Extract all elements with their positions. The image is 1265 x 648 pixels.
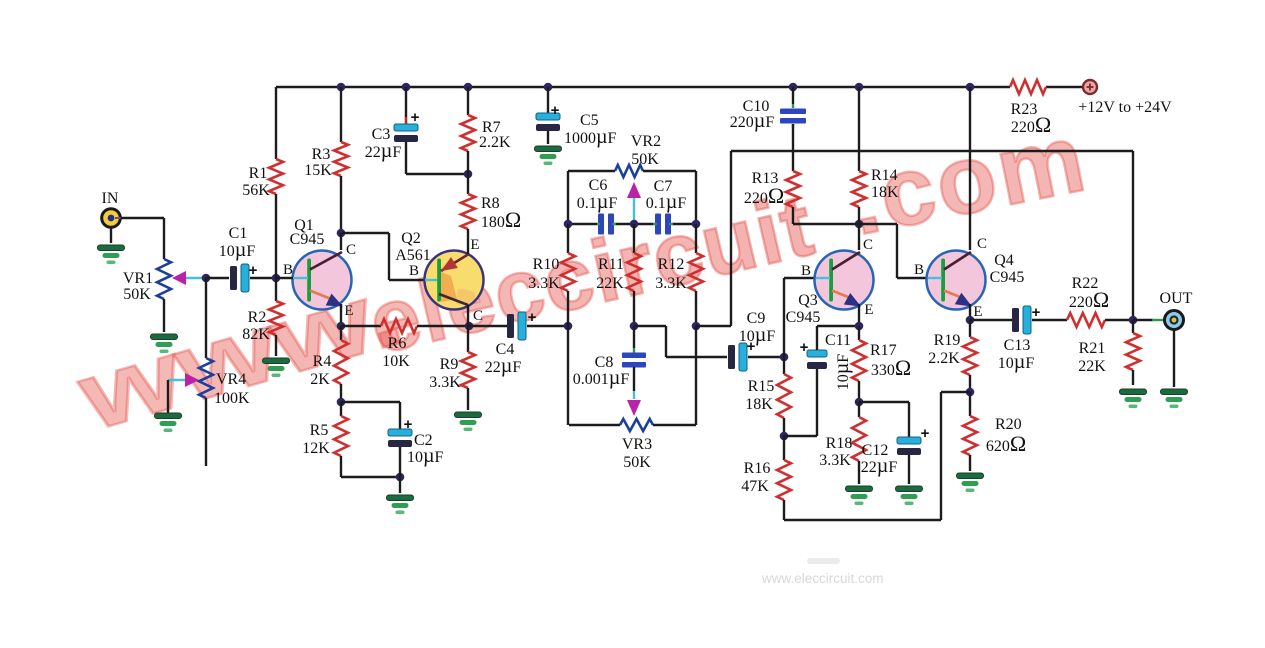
svg-text:R17: R17 (870, 342, 897, 359)
svg-text:10K: 10K (382, 353, 410, 370)
svg-text:R21: R21 (1079, 340, 1106, 357)
svg-text:R23: R23 (1011, 101, 1038, 118)
svg-text:18K: 18K (745, 396, 773, 413)
svg-text:50K: 50K (631, 151, 659, 168)
svg-text:OUT: OUT (1160, 290, 1193, 307)
svg-text:100K: 100K (214, 390, 250, 407)
svg-text:B: B (801, 263, 811, 279)
svg-text:C945: C945 (990, 269, 1025, 286)
svg-text:Q4: Q4 (994, 252, 1014, 269)
svg-text:B: B (914, 262, 924, 278)
svg-text:R14: R14 (871, 167, 898, 184)
svg-text:10µF: 10µF (831, 354, 853, 391)
svg-text:22µF: 22µF (861, 455, 898, 477)
svg-text:C: C (863, 237, 873, 253)
svg-text:B: B (409, 263, 419, 279)
svg-text:+: + (1032, 304, 1041, 321)
svg-text:1000µF: 1000µF (564, 126, 617, 148)
svg-text:+: + (800, 339, 809, 356)
svg-text:R19: R19 (934, 332, 961, 349)
svg-text:Q3: Q3 (798, 292, 818, 309)
svg-text:82K: 82K (242, 326, 270, 343)
svg-text:15K: 15K (304, 162, 332, 179)
svg-text:0.001µF: 0.001µF (573, 367, 630, 389)
svg-text:E: E (973, 304, 982, 320)
svg-text:+: + (404, 416, 413, 433)
svg-text:R4: R4 (313, 353, 332, 370)
svg-text:A561: A561 (395, 247, 431, 264)
svg-text:+12V to +24V: +12V to +24V (1078, 99, 1172, 116)
svg-text:+: + (249, 262, 258, 279)
svg-text:2.2K: 2.2K (928, 350, 960, 367)
svg-text:50K: 50K (623, 454, 651, 471)
svg-text:R6: R6 (388, 335, 407, 352)
svg-text:VR1: VR1 (123, 270, 153, 287)
svg-text:0.1µF: 0.1µF (646, 191, 687, 213)
svg-text:0.1µF: 0.1µF (577, 191, 618, 213)
svg-text:3.3K: 3.3K (819, 452, 851, 469)
svg-text:VR2: VR2 (631, 133, 661, 150)
svg-text:R8: R8 (481, 195, 500, 212)
svg-text:R11: R11 (598, 256, 624, 273)
svg-text:R3: R3 (312, 146, 331, 163)
svg-text:C945: C945 (786, 309, 821, 326)
svg-text:220µF: 220µF (730, 110, 775, 132)
svg-text:Q2: Q2 (401, 230, 421, 247)
svg-text:R16: R16 (744, 460, 771, 477)
svg-text:12K: 12K (302, 440, 330, 457)
svg-text:C945: C945 (290, 231, 325, 248)
svg-text:www.eleccircuit.com: www.eleccircuit.com (761, 571, 884, 586)
svg-text:+: + (528, 309, 537, 326)
svg-text:3.3K: 3.3K (429, 374, 461, 391)
svg-text:22K: 22K (1078, 358, 1106, 375)
svg-text:22µF: 22µF (365, 140, 402, 162)
svg-text:10µF: 10µF (407, 445, 444, 467)
svg-text:R15: R15 (748, 378, 775, 395)
svg-text:C: C (346, 242, 356, 258)
svg-text:R10: R10 (533, 256, 560, 273)
svg-text:C11: C11 (825, 332, 851, 349)
svg-text:VR3: VR3 (622, 436, 652, 453)
svg-text:C: C (473, 308, 483, 324)
svg-text:E: E (470, 237, 479, 253)
svg-text:R5: R5 (310, 422, 329, 439)
svg-text:50K: 50K (123, 286, 151, 303)
svg-text:10µF: 10µF (219, 239, 256, 261)
svg-text:10µF: 10µF (998, 351, 1035, 373)
svg-text:10µF: 10µF (739, 324, 776, 346)
svg-text:2.2K: 2.2K (479, 134, 511, 151)
svg-text:R9: R9 (440, 356, 459, 373)
svg-text:56K: 56K (242, 182, 270, 199)
svg-text:R18: R18 (826, 435, 853, 452)
svg-text:+: + (411, 109, 420, 126)
svg-text:2K: 2K (310, 371, 330, 388)
svg-text:R2: R2 (248, 309, 267, 326)
svg-text:+: + (551, 102, 560, 119)
svg-text:E: E (864, 302, 873, 318)
svg-text:B: B (283, 262, 293, 278)
svg-text:22µF: 22µF (485, 355, 522, 377)
svg-text:22K: 22K (596, 275, 624, 292)
svg-text:C: C (977, 236, 987, 252)
svg-text:IN: IN (102, 190, 119, 207)
svg-text:E: E (344, 303, 353, 319)
svg-text:3.3K: 3.3K (528, 275, 560, 292)
svg-text:18K: 18K (871, 184, 899, 201)
svg-text:47K: 47K (741, 478, 769, 495)
svg-text:VR4: VR4 (216, 371, 246, 388)
svg-text:R12: R12 (658, 256, 685, 273)
svg-text:3.3K: 3.3K (655, 275, 687, 292)
svg-text:R1: R1 (249, 165, 268, 182)
svg-text:+: + (921, 425, 930, 442)
